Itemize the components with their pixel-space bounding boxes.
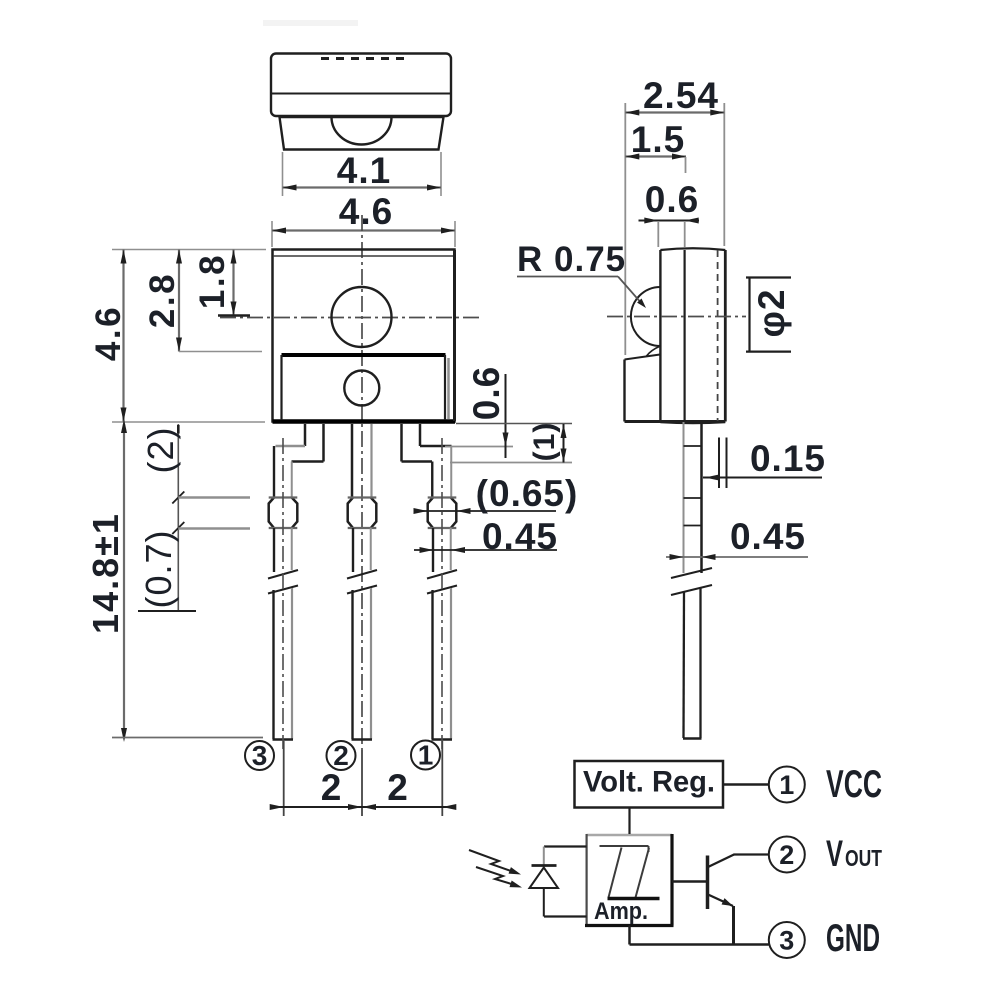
- svg-text:φ2: φ2: [751, 288, 792, 337]
- svg-text:VCC: VCC: [826, 763, 882, 806]
- svg-text:1.8: 1.8: [193, 253, 232, 309]
- svg-text:1: 1: [418, 740, 434, 771]
- svg-text:0.45: 0.45: [482, 516, 558, 557]
- svg-text:0.6: 0.6: [645, 179, 699, 220]
- svg-text:GND: GND: [826, 917, 880, 960]
- svg-text:2: 2: [387, 767, 409, 808]
- svg-text:4.6: 4.6: [339, 191, 393, 232]
- svg-text:R 0.75: R 0.75: [517, 240, 626, 279]
- svg-text:1.5: 1.5: [631, 119, 685, 160]
- svg-text:1: 1: [779, 770, 794, 800]
- svg-text:4.1: 4.1: [337, 150, 391, 191]
- svg-text:(0.7): (0.7): [138, 529, 179, 608]
- svg-text:14.8±1: 14.8±1: [85, 512, 126, 634]
- svg-text:Amp.: Amp.: [594, 898, 648, 925]
- svg-text:2: 2: [779, 840, 794, 870]
- svg-text:Volt. Reg.: Volt. Reg.: [583, 766, 715, 799]
- svg-text:(2): (2): [140, 427, 181, 474]
- svg-text:4.6: 4.6: [89, 305, 128, 361]
- svg-text:(0.65): (0.65): [476, 473, 579, 514]
- svg-text:0.15: 0.15: [750, 438, 826, 479]
- svg-text:V: V: [826, 833, 843, 874]
- svg-text:2: 2: [321, 767, 343, 808]
- svg-text:0.45: 0.45: [730, 516, 806, 557]
- svg-text:3: 3: [779, 926, 794, 956]
- svg-text:(1): (1): [528, 422, 561, 462]
- svg-text:2.54: 2.54: [643, 75, 719, 116]
- svg-text:0.6: 0.6: [466, 366, 507, 420]
- svg-text:OUT: OUT: [845, 845, 882, 871]
- svg-text:3: 3: [252, 740, 268, 771]
- svg-text:2.8: 2.8: [143, 272, 182, 328]
